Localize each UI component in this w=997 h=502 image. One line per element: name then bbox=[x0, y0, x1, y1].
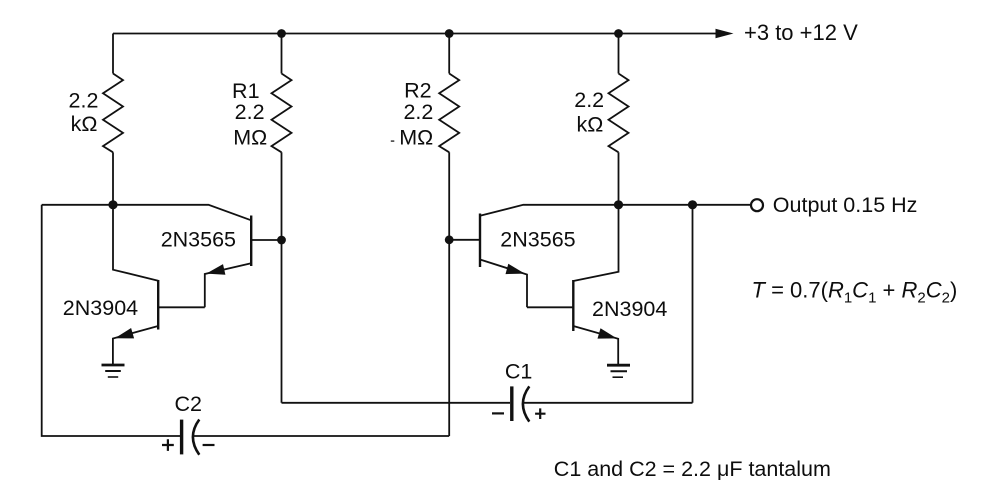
svg-text:C1: C1 bbox=[505, 360, 532, 384]
svg-text:kΩ: kΩ bbox=[576, 113, 603, 137]
wire C1 left lead bbox=[282, 402, 511, 404]
transistor Q3 2N3565 right bbox=[479, 214, 481, 268]
wire Q2 base lead bbox=[158, 306, 205, 308]
wire Q3 base lead bbox=[449, 239, 480, 241]
wire Q2 collector lead bbox=[113, 205, 158, 281]
capacitor C2 bbox=[180, 420, 183, 455]
wire Q3 emitter lead bbox=[480, 260, 527, 308]
svg-text:MΩ: MΩ bbox=[399, 125, 433, 149]
capacitor C1 bbox=[510, 386, 513, 421]
speck artifact left of MOhm bbox=[391, 140, 395, 142]
wire Q1 base lead bbox=[251, 239, 281, 241]
polarity minus C2 bbox=[203, 444, 215, 446]
svg-text:C1 and C2 = 2.2 μF tantalum: C1 and C2 = 2.2 μF tantalum bbox=[554, 457, 831, 481]
output terminal circle bbox=[751, 199, 763, 211]
wire Q2 emitter lead bbox=[113, 326, 158, 365]
svg-text:C2: C2 bbox=[174, 392, 201, 416]
node junction output bbox=[688, 200, 697, 209]
svg-text:2.2: 2.2 bbox=[235, 100, 265, 124]
svg-text:2N3565: 2N3565 bbox=[161, 227, 236, 251]
svg-text:2.2: 2.2 bbox=[69, 89, 99, 113]
wire Q3 collector lead bbox=[480, 205, 693, 216]
node junction rail-right2.2k bbox=[614, 29, 623, 38]
svg-text:+3 to +12 V: +3 to +12 V bbox=[744, 20, 858, 45]
arrow Q4 emitter bbox=[598, 328, 617, 338]
polarity plus C2 bbox=[162, 439, 174, 451]
svg-text:Output 0.15 Hz: Output 0.15 Hz bbox=[773, 193, 918, 217]
wire R1 bottom lead down to C1 bbox=[281, 152, 283, 402]
polarity minus C1 bbox=[492, 412, 504, 414]
svg-text:T = 0.7(R1C1 + R2C2): T = 0.7(R1C1 + R2C2) bbox=[752, 278, 958, 307]
wire output stub bbox=[693, 204, 751, 206]
wire Q4 base lead bbox=[527, 306, 573, 308]
wire R1 top lead bbox=[281, 34, 283, 74]
svg-text:R2: R2 bbox=[404, 78, 431, 102]
wire C1 right lead bbox=[524, 402, 693, 404]
node A junction dot bbox=[108, 200, 117, 209]
svg-text:2.2: 2.2 bbox=[403, 100, 433, 124]
resistor right 2.2 kOhm bbox=[609, 74, 629, 153]
polarity plus C1 bbox=[535, 408, 545, 419]
wire C1 to output riser bbox=[692, 205, 694, 403]
wire R2 bottom lead down to C2 bbox=[448, 152, 450, 436]
svg-text:2N3904: 2N3904 bbox=[592, 297, 667, 321]
wire left 2.2k bottom lead bbox=[112, 152, 114, 205]
supply arrow bbox=[716, 29, 734, 39]
svg-text:kΩ: kΩ bbox=[71, 112, 98, 136]
node junction collector rail right 2.2k bbox=[614, 200, 623, 209]
transistor Q1 2N3565 left bbox=[250, 216, 252, 267]
resistor left 2.2 kOhm bbox=[103, 74, 123, 153]
arrow Q2 emitter bbox=[115, 328, 134, 338]
svg-text:2N3565: 2N3565 bbox=[500, 228, 575, 252]
wire node A to Q1 collector bbox=[113, 205, 251, 221]
arrow Q3 emitter bbox=[506, 264, 525, 274]
node junction Q1 base to R1 bbox=[277, 236, 286, 245]
transistor Q2 2N3904 left bbox=[157, 280, 159, 330]
resistor R2 2.2 MOhm bbox=[439, 74, 459, 153]
svg-text:2.2: 2.2 bbox=[574, 88, 604, 112]
wire Q4 collector lead bbox=[573, 205, 618, 281]
arrow Q1 emitter bbox=[206, 264, 225, 275]
wire top supply rail bbox=[113, 33, 720, 35]
transistor Q4 2N3904 right bbox=[572, 280, 574, 331]
resistor R1 2.2 MOhm bbox=[272, 74, 292, 153]
ground right bbox=[607, 365, 630, 377]
wire Q4 emitter lead bbox=[573, 326, 618, 365]
wire right 2.2k bottom lead bbox=[618, 152, 620, 205]
wire C2 right lead bbox=[194, 435, 450, 437]
node junction Q3 base to R2 bbox=[445, 235, 454, 244]
wire node A horizontal to left rail bbox=[42, 204, 113, 206]
node junction rail-R2 bbox=[445, 29, 454, 38]
ground left bbox=[102, 365, 125, 377]
wire right 2.2k top lead bbox=[618, 34, 620, 74]
svg-text:2N3904: 2N3904 bbox=[63, 296, 138, 320]
wire Q1 emitter lead bbox=[205, 263, 251, 307]
wire R2 top lead bbox=[448, 34, 450, 74]
wire left 2.2k top lead bbox=[112, 34, 114, 74]
wire left outer loop down bbox=[42, 205, 182, 436]
node junction rail-R1 bbox=[277, 29, 286, 38]
svg-text:MΩ: MΩ bbox=[233, 125, 267, 149]
